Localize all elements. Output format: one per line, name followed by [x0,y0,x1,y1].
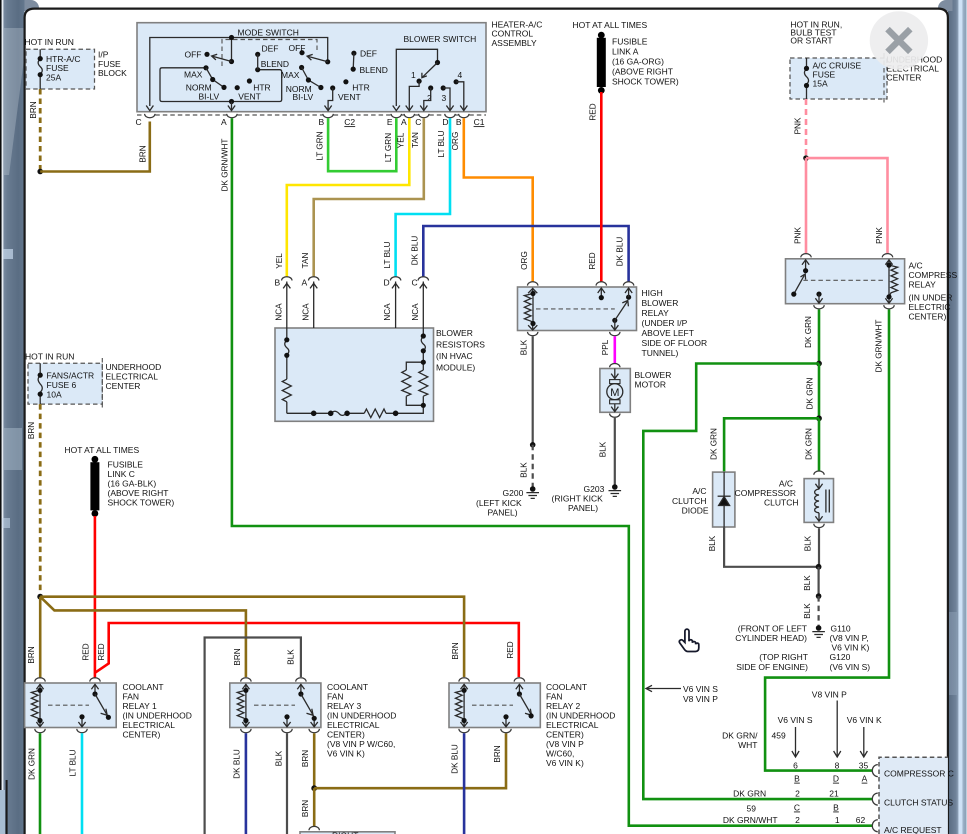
ground G203 [552,484,622,513]
svg-text:HOT AT ALL TIMES: HOT AT ALL TIMES [65,445,140,455]
fuse FANS/ACTR 10A [38,363,95,404]
ground G110/G120 [735,623,870,671]
svg-text:C: C [412,278,418,288]
svg-text:E: E [387,117,393,127]
svg-text:DEF: DEF [262,44,279,54]
wire LT BLU D to resistor D [396,118,450,277]
svg-text:BLEND: BLEND [360,65,388,75]
svg-text:ORG: ORG [451,132,460,151]
svg-text:459: 459 [772,731,786,741]
wire BRN node to relay2 out [314,733,506,788]
svg-text:RELAY: RELAY [909,279,937,289]
svg-text:DK GRN/WHT: DK GRN/WHT [723,815,778,825]
blower switch position 1 to A exit [417,79,422,84]
wire BRN junction to terminal C [40,122,150,172]
svg-text:BRN: BRN [301,800,310,817]
mode switch 2 VENT contact to B exit [330,85,335,90]
blower switch wiper to position 1 [422,63,437,78]
svg-text:MAX: MAX [184,69,203,79]
dashed OFF detent box [222,40,317,67]
svg-text:PPL: PPL [601,339,610,355]
svg-text:BRN: BRN [233,648,242,665]
svg-text:DK GRN: DK GRN [27,748,36,780]
svg-text:COMPRESSOR: COMPRESSOR [735,488,796,498]
svg-text:RELAY 1: RELAY 1 [123,701,157,711]
svg-text:BLOCK: BLOCK [98,68,127,78]
svg-text:BLK: BLK [520,462,529,478]
wire BRN junction to relay2 [40,597,464,677]
wire BLK angle feed to relay3 [205,638,301,834]
svg-text:BLK: BLK [598,441,607,457]
svg-text:ORG: ORG [520,251,529,270]
node B [816,415,822,421]
wire BLK relay3 out [286,733,288,834]
svg-text:A: A [401,117,407,127]
svg-text:RESISTORS: RESISTORS [436,339,485,349]
svg-text:A/C: A/C [779,478,793,488]
close button [870,11,928,69]
mode switch 2 MAX wiper [299,65,304,70]
wire DK GRN/WHT from A down and across to A/C REQUEST [232,118,872,826]
svg-text:(IN UNDERHOOD: (IN UNDERHOOD [327,711,396,721]
svg-text:1: 1 [411,70,416,80]
svg-text:RELAY 3: RELAY 3 [327,701,361,711]
wire LT BLU relay1 out [81,733,84,834]
svg-text:B: B [456,117,462,127]
resistor C branch: limiter + parallel resistors [402,328,428,405]
svg-text:(ABOVE RIGHT: (ABOVE RIGHT [108,488,169,498]
wire BLK clutch to junction [818,528,820,567]
wire BRN node to right cooling fan [313,788,316,826]
svg-text:BLOWER SWITCH: BLOWER SWITCH [404,34,477,44]
svg-text:BLOWER: BLOWER [642,298,679,308]
svg-text:1: 1 [835,815,840,825]
connector pin arcs [872,765,877,777]
wire RED link A to relay [600,92,603,282]
svg-text:25A: 25A [46,73,61,83]
terminal collars under switch box [145,114,469,118]
svg-text:G110: G110 [831,623,851,633]
svg-text:59: 59 [747,804,757,814]
mode switch 1 wiper MAX-NORM [206,68,224,88]
svg-text:D: D [833,774,839,784]
svg-text:(16 GA-BLK): (16 GA-BLK) [108,479,157,489]
svg-text:8: 8 [835,760,840,770]
svg-text:MOTOR: MOTOR [635,379,666,389]
coolant fan relay 1 [35,678,45,682]
wire BLK relay to G200 [532,336,534,445]
svg-text:HOT IN RUN: HOT IN RUN [25,37,74,47]
svg-text:(IN UNDER: (IN UNDER [909,292,953,302]
wire DK GRN node B to diode [724,418,819,472]
svg-text:B: B [319,117,325,127]
svg-text:LT BLU: LT BLU [68,749,77,776]
wire BRN relay3 out to node [313,733,316,788]
wire BRN dashed fuse to junction [39,404,42,597]
node: BRN junction [37,169,43,175]
underhood electrical center dashed box [28,363,102,404]
mode switch 2 HTR contact [343,79,348,84]
svg-text:TAN: TAN [301,253,310,269]
A/C cruise fuse dashed box [790,58,887,99]
svg-text:HIGH: HIGH [642,288,663,298]
svg-text:FUSE 6: FUSE 6 [47,380,77,390]
resistor B branch: limiter + resistor [282,328,291,413]
svg-text:V6 VIN K): V6 VIN K) [327,749,365,759]
connector dashed line under switch box [137,114,486,116]
wire DK GRN relay to node A [818,310,821,364]
svg-text:4: 4 [458,70,463,80]
svg-text:DK GRN/WHT: DK GRN/WHT [220,139,229,192]
svg-text:BLK: BLK [803,603,812,619]
svg-text:(ABOVE RIGHT: (ABOVE RIGHT [612,66,673,76]
relay actuator dashed link [536,308,615,310]
svg-text:BLEND: BLEND [261,59,289,69]
svg-text:BLOWER: BLOWER [635,370,672,380]
svg-text:YEL: YEL [275,253,284,269]
relay coil [524,288,537,330]
window chrome: right bar [948,0,967,834]
svg-text:ELECTRICAL: ELECTRICAL [123,720,176,730]
svg-text:PNK: PNK [875,227,884,244]
svg-text:VENT: VENT [238,92,261,102]
svg-text:BLK: BLK [274,750,283,766]
svg-text:OR START: OR START [790,35,832,45]
svg-text:(UNDER I/P: (UNDER I/P [642,318,688,328]
svg-text:BRN: BRN [138,145,147,162]
svg-text:(LEFT KICK: (LEFT KICK [476,498,522,508]
wire DK BLU resistor C to relay [423,226,628,282]
svg-text:UNDERHOOD: UNDERHOOD [106,362,162,372]
svg-text:(TOP RIGHT: (TOP RIGHT [759,652,808,662]
svg-text:BLK: BLK [287,649,296,665]
svg-text:ELECTRICAL: ELECTRICAL [546,720,599,730]
svg-text:COOLANT: COOLANT [327,682,368,692]
node on rail [229,35,234,40]
svg-text:B: B [794,774,800,784]
svg-text:B: B [275,278,281,288]
mode switch 2 pivot and OFF arm [325,59,330,64]
relay RED input contact [598,288,605,298]
svg-text:C: C [136,117,142,127]
svg-text:DEF: DEF [360,49,377,59]
svg-text:MAX: MAX [281,70,300,80]
svg-text:COOLANT: COOLANT [123,682,164,692]
wire PPL relay to blower motor [613,336,616,364]
resistor box terminal collars [282,277,429,281]
wire DK GRN/WHT relay coil to compressor row [765,310,889,771]
relay1 switch arm [92,691,97,696]
svg-text:BLK: BLK [520,339,529,355]
mode switch 1 C exit arrow [146,106,153,111]
svg-text:(FRONT OF LEFT: (FRONT OF LEFT [738,623,807,633]
svg-text:DK BLU: DK BLU [232,749,241,779]
svg-text:PNK: PNK [793,117,802,134]
PCM connector dashed box [879,757,948,834]
svg-text:RED: RED [506,641,515,658]
svg-text:DK GRN: DK GRN [804,316,813,348]
svg-text:A/C: A/C [909,260,923,270]
wire DK BLU relay3 out [245,733,248,834]
svg-text:V8 VIN P: V8 VIN P [683,694,718,704]
svg-text:(V6 VIN S): (V6 VIN S) [830,662,871,672]
svg-text:TUNNEL): TUNNEL) [642,348,679,358]
svg-text:COMPRESSOR C: COMPRESSOR C [884,768,954,778]
svg-text:NCA: NCA [274,303,283,321]
NCA leads with up arrows [283,282,427,329]
wire DK BLU relay2 out [463,733,466,834]
wire DK GRN node A loop to clutch status [643,364,872,800]
svg-text:C: C [794,803,800,813]
svg-text:V6 VIN K): V6 VIN K) [832,643,870,653]
svg-text:BI-LV: BI-LV [293,92,314,102]
svg-text:BLOWER: BLOWER [436,328,473,338]
svg-text:BLK: BLK [803,575,812,591]
blower motor M1 [610,363,620,367]
node A [816,361,822,367]
svg-text:CENTER: CENTER [887,73,922,83]
svg-text:LT BLU: LT BLU [383,241,392,268]
mode switch 1 HTR / VENT contacts [247,78,252,83]
svg-text:A: A [302,278,308,288]
svg-text:CLUTCH STATUS: CLUTCH STATUS [884,798,953,808]
blower switch rail E to pivot [396,49,437,106]
svg-text:LT GRN: LT GRN [384,133,393,162]
high blower relay U2 [518,287,637,331]
wire DK GRN node B to clutch [818,418,821,471]
wire RED link C to relay1 [94,516,97,679]
svg-text:C1: C1 [474,117,485,127]
blower switch position 2 to C exit [428,85,433,90]
svg-text:V6 VIN S: V6 VIN S [683,684,718,694]
svg-text:G203: G203 [584,484,605,494]
svg-text:A: A [221,117,227,127]
fuse HTR-A/C 25A [38,49,81,89]
svg-text:DK GRN/WHT: DK GRN/WHT [874,320,883,373]
svg-text:YEL: YEL [396,132,405,148]
node BLK junction [816,564,822,570]
svg-text:15A: 15A [813,79,828,89]
mode switch 1 DEF contact and link to BLEND [255,52,260,57]
svg-text:10A: 10A [47,390,62,400]
svg-text:62: 62 [856,815,866,825]
svg-text:CENTER): CENTER) [546,730,584,740]
svg-text:2: 2 [795,789,800,799]
wire BLK junction to G110 [817,567,819,596]
svg-text:VENT: VENT [338,92,361,102]
resistor box bottom rail with limiter and resistor [287,405,424,417]
svg-text:BRN: BRN [27,422,36,439]
svg-text:LINK C: LINK C [108,469,135,479]
node BRN distribution junction [37,594,43,600]
wire DK GRN node A to node B [818,364,821,419]
svg-text:C: C [415,117,421,127]
relay3 coil K3 [237,684,317,727]
svg-text:3: 3 [442,93,447,103]
svg-text:CENTER): CENTER) [909,311,947,321]
svg-text:DK GRN/: DK GRN/ [722,731,758,741]
svg-text:COMPRESS: COMPRESS [909,270,958,280]
svg-text:DIODE: DIODE [682,505,709,515]
A/C compressor relay U3 [801,254,811,258]
A/C clutch diode D1 [713,472,735,527]
svg-text:CLUTCH: CLUTCH [764,498,798,508]
svg-text:FUSIBLE: FUSIBLE [612,36,648,46]
corner blobs outside page rounded corners [25,0,40,11]
svg-text:CENTER): CENTER) [123,730,161,740]
fuse A/C CRUISE 15A [804,58,862,99]
relay collars bottom [814,305,824,309]
svg-text:ELECTRICAL: ELECTRICAL [106,372,159,382]
svg-text:(V8 VIN P W/C60,: (V8 VIN P W/C60, [327,739,395,749]
svg-text:CENTER): CENTER) [327,730,365,740]
mode switch 1 pivot and OFF arm [229,59,234,64]
svg-text:(IN UNDERHOOD: (IN UNDERHOOD [123,711,192,721]
svg-text:OFF: OFF [289,43,306,53]
svg-text:RED: RED [588,252,597,269]
fusible link C [90,456,174,517]
svg-text:NCA: NCA [301,303,310,321]
svg-text:V6 VIN K): V6 VIN K) [546,758,584,768]
svg-text:HOT IN RUN: HOT IN RUN [25,352,74,362]
svg-text:COOLANT: COOLANT [546,682,587,692]
svg-text:RED: RED [588,103,597,120]
svg-text:BRN: BRN [301,750,310,767]
ground G200 [476,486,539,517]
svg-text:(RIGHT KICK: (RIGHT KICK [552,493,604,503]
svg-text:(IN HVAC: (IN HVAC [436,351,473,361]
coolant fan relay 2 [459,678,469,682]
svg-text:FAN: FAN [327,692,344,702]
svg-text:PANEL): PANEL) [488,507,518,517]
svg-text:(16 GA-ORG): (16 GA-ORG) [612,56,664,66]
svg-text:BRN: BRN [27,646,36,663]
I/P fuse block dashed box [26,49,95,89]
svg-text:DK GRN: DK GRN [805,377,814,409]
svg-text:C2: C2 [344,117,355,127]
relay1 coil K1 [31,684,98,727]
relay coil [885,260,897,304]
svg-text:SHOCK TOWER): SHOCK TOWER) [108,498,175,508]
svg-text:A: A [862,774,868,784]
mouse cursor [679,629,699,651]
svg-text:G200: G200 [503,488,524,498]
svg-text:RED: RED [97,643,106,660]
wire BRN junction to relay1 [39,597,42,679]
mode switch 1 rail sub-box MAX/BLEND [160,68,282,102]
relay2 switch arm [517,691,522,696]
relay actuator dashed link [803,279,883,281]
wire BRN junction diagonal to relay3 [40,597,246,677]
svg-text:G120: G120 [830,652,851,662]
wire BLK motor to G203 [614,418,616,485]
svg-text:D: D [442,117,448,127]
relay switch arm [802,260,809,271]
svg-text:DK BLU: DK BLU [410,236,419,266]
svg-text:SIDE OF FLOOR: SIDE OF FLOOR [642,338,708,348]
svg-text:CYLINDER HEAD): CYLINDER HEAD) [735,633,807,643]
svg-text:(V8 VIN P,: (V8 VIN P, [830,633,869,643]
svg-text:V8 VIN P: V8 VIN P [812,690,847,700]
svg-text:W/C60,: W/C60, [546,749,574,759]
svg-text:(IN UNDERHOOD: (IN UNDERHOOD [546,711,615,721]
relay switch arm [612,318,617,323]
heater A/C control assembly box (mode+blower switch) [137,23,486,112]
svg-text:V6 VIN S: V6 VIN S [778,715,813,725]
svg-text:A/C REQUEST: A/C REQUEST [884,825,942,834]
wire DK GRN relay1 out [39,733,42,834]
svg-text:B: B [833,803,839,813]
svg-text:MODULE): MODULE) [436,363,475,373]
svg-text:SHOCK TOWER): SHOCK TOWER) [612,76,679,86]
svg-text:2: 2 [795,815,800,825]
wire ORG B to relay [464,118,533,282]
svg-text:ELECTRIC: ELECTRIC [909,302,951,312]
svg-text:MODE SWITCH: MODE SWITCH [238,27,299,37]
VIN callout arrow left [647,688,681,690]
svg-text:OFF: OFF [185,50,202,60]
svg-text:RIGHT: RIGHT [332,831,358,834]
wire LT GRN B to E [328,118,396,171]
mode switch 1 OFF contact [204,52,209,57]
mode switch 2 DEF/BLEND contacts [351,51,356,56]
svg-text:(V8 VIN P: (V8 VIN P [546,739,584,749]
svg-text:RED: RED [81,643,90,660]
relay3 switch arm [298,691,303,696]
svg-text:A/C: A/C [692,486,706,496]
svg-text:FAN: FAN [123,692,140,702]
fusible link A [597,32,679,94]
svg-text:ELECTRICAL: ELECTRICAL [327,720,380,730]
svg-text:HOT AT ALL TIMES: HOT AT ALL TIMES [573,20,648,30]
node PNK junction [803,155,809,161]
svg-text:TAN: TAN [411,132,420,148]
svg-text:LT GRN: LT GRN [316,131,325,160]
relay DK GRN output contact [816,292,821,297]
svg-text:SIDE OF ENGINE): SIDE OF ENGINE) [736,662,808,672]
wire BLK diode to junction [724,527,819,567]
svg-text:RELAY 2: RELAY 2 [546,701,580,711]
svg-text:RELAY: RELAY [642,308,670,318]
svg-text:FANS/ACTR: FANS/ACTR [47,371,95,381]
svg-text:FAN: FAN [546,692,563,702]
wire TAN C to resistor A [314,118,424,277]
svg-text:DK GRN: DK GRN [804,428,813,460]
svg-text:LINK A: LINK A [612,46,639,56]
svg-text:V6 VIN K: V6 VIN K [847,715,882,725]
wire YEL A to resistor B [287,118,410,277]
wire BRN dashed from fuse down [39,89,42,172]
blower resistors box [275,328,434,421]
svg-text:CENTER: CENTER [106,381,141,391]
svg-text:DK BLU: DK BLU [616,237,625,267]
svg-text:BRN: BRN [451,642,460,659]
svg-text:LT BLU: LT BLU [437,130,446,157]
wire PNK to relay terminals [806,158,888,254]
svg-text:ABOVE LEFT: ABOVE LEFT [642,328,694,338]
svg-text:CLUTCH: CLUTCH [672,496,706,506]
wire RED branch to relay2 [95,623,519,677]
svg-text:FUSIBLE: FUSIBLE [108,460,144,470]
svg-text:DK GRN: DK GRN [733,789,766,799]
svg-text:DK BLU: DK BLU [451,744,460,774]
svg-text:BRN: BRN [29,101,38,118]
relay collars bottom [528,332,621,336]
A/C compressor clutch L1 [814,471,824,475]
blower switch position 4 to B exit [454,79,459,84]
svg-text:BLK: BLK [708,535,717,551]
svg-text:ASSEMBLY: ASSEMBLY [492,38,538,48]
